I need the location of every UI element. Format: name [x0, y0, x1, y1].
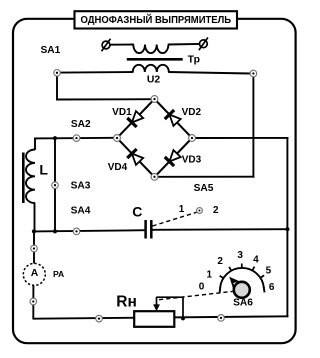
terminal SA2	[73, 135, 80, 142]
SA6 pointer notch	[233, 282, 236, 286]
node bridge left	[114, 135, 121, 142]
svg-text:VD4: VD4	[108, 162, 128, 173]
svg-text:VD1: VD1	[112, 107, 132, 118]
wire: filter node to capacitor	[34, 230, 146, 231]
capacitor C left plate	[144, 220, 147, 239]
SA6 tick 4	[252, 267, 254, 271]
svg-text:6: 6	[269, 282, 275, 293]
svg-text:SA3: SA3	[71, 181, 91, 192]
svg-text:SA1: SA1	[40, 45, 60, 56]
terminal secondary right	[250, 70, 257, 77]
terminal ammeter top	[31, 245, 38, 252]
svg-text:VD2: VD2	[182, 107, 202, 118]
SA6 tick 3	[241, 264, 243, 269]
wire: SA3 bypass vertical	[54, 138, 56, 231]
svg-text:A: A	[31, 268, 39, 279]
terminal SA1 jack	[54, 70, 61, 77]
svg-text:4: 4	[253, 255, 259, 266]
node bridge top	[151, 96, 158, 103]
svg-text:PA: PA	[53, 269, 64, 279]
SA6 tick 1	[220, 276, 224, 278]
wire: secondary right vertical	[252, 74, 254, 178]
wire: to bridge top vertex	[56, 98, 151, 100]
svg-text:L: L	[39, 162, 48, 178]
wire: ammeter branch upper	[33, 231, 35, 264]
SA6 end hook 6	[263, 287, 266, 293]
switch SA5 arm (dashed)	[153, 212, 197, 226]
svg-text:2: 2	[217, 256, 223, 267]
svg-text:SA4: SA4	[71, 205, 91, 216]
svg-text:Rн: Rн	[116, 293, 137, 310]
wire: ammeter branch lower	[32, 286, 34, 320]
resistor wiper arrow	[153, 297, 160, 311]
wire: SA1 jack down	[56, 76, 58, 101]
SA6 tick 5	[260, 275, 264, 277]
wire: secondary left lead	[61, 71, 134, 74]
svg-text:3: 3	[237, 250, 243, 261]
diode bridge edges	[117, 99, 192, 177]
wire: L branch top drop	[34, 138, 36, 151]
wire: wiper to right terminal	[157, 297, 184, 319]
svg-text:SA6: SA6	[233, 297, 253, 308]
wire: L branch bottom drop	[34, 203, 36, 233]
svg-text:SA5: SA5	[194, 183, 214, 194]
capacitor C right plate	[150, 220, 153, 239]
SA6 pointer	[229, 277, 239, 289]
diode VD2	[165, 110, 181, 126]
terminal SA4	[73, 228, 80, 235]
svg-text:Тр: Тр	[188, 54, 200, 65]
junction at SA3 bottom	[53, 229, 57, 233]
svg-text:1: 1	[207, 270, 213, 281]
junction at right rail	[285, 227, 289, 231]
terminal bottom right	[218, 315, 225, 322]
junction at SA3 top	[53, 136, 57, 140]
wire: left vertex to L branch	[34, 137, 114, 140]
wire: primary right lead	[168, 43, 200, 46]
wire: capacitor to right rail	[151, 228, 288, 231]
wire: right rail vertical	[286, 137, 288, 317]
resistor Rn body	[134, 311, 174, 327]
wire: primary left lead	[110, 44, 134, 46]
svg-text:ОДНОФАЗНЫЙ ВЫПРЯМИТЕЛЬ: ОДНОФАЗНЫЙ ВЫПРЯМИТЕЛЬ	[81, 13, 232, 26]
transformer Tp primary winding	[133, 45, 168, 54]
transformer U2 secondary winding	[133, 65, 169, 72]
svg-text:5: 5	[266, 266, 272, 277]
terminal SA3	[52, 182, 59, 189]
svg-text:VD3: VD3	[182, 154, 202, 165]
svg-text:U2: U2	[147, 74, 161, 85]
svg-text:C: C	[132, 204, 142, 220]
wire: secondary right lead	[168, 72, 250, 74]
wire: right vertex to right rail	[196, 137, 289, 139]
junction wiper tap	[181, 316, 185, 320]
node bridge right	[189, 135, 196, 142]
wire: bottom rail	[33, 316, 288, 318]
mechanical link SA6 to wiper (dashed)	[159, 291, 234, 299]
inductor core	[22, 153, 25, 204]
diode VD3	[165, 150, 181, 166]
svg-text:2: 2	[213, 205, 219, 216]
SA6 knob	[234, 282, 250, 298]
transformer core	[127, 58, 183, 61]
inductor L winding	[26, 150, 35, 204]
svg-text:0: 0	[199, 282, 205, 293]
diode VD1	[127, 111, 143, 127]
svg-text:SA2: SA2	[71, 119, 91, 130]
switch SA6 dial arc	[220, 268, 264, 289]
plug terminal left (slashed circle)	[102, 39, 111, 52]
title box	[75, 11, 238, 28]
node bridge bottom	[151, 173, 158, 180]
terminal bottom left	[96, 315, 103, 322]
terminal ammeter bottom	[30, 298, 37, 305]
wire: bottom vertex to right	[158, 176, 254, 178]
switch SA5 pivot	[197, 208, 203, 214]
diode VD4	[127, 149, 143, 165]
ammeter PA circle	[23, 263, 45, 285]
plug terminal right (slashed circle)	[199, 38, 208, 51]
SA6 end hook 0	[219, 287, 222, 293]
SA6 tick 2	[229, 267, 231, 271]
junction at ammeter branch	[32, 229, 36, 233]
svg-text:1: 1	[179, 204, 185, 215]
